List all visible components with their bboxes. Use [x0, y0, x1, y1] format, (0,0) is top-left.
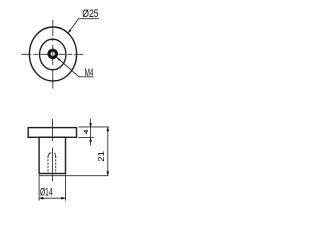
svg-text:4: 4 [84, 129, 90, 134]
middle circle (body dia) [40, 39, 66, 70]
horizontal centerline [21, 53, 83, 55]
arrowhead O14 left [39, 197, 43, 200]
dim 21: bottom reference line [39, 175, 108, 177]
arrowhead dim21 bottom [106, 172, 109, 176]
flange (head) rectangle [28, 128, 76, 138]
tapped hole ring M4 [49, 50, 56, 57]
side view centerline [51, 119, 53, 181]
arrowhead M4 leader [57, 57, 61, 61]
arrowhead O25 leader [68, 29, 71, 33]
vertical centerline [52, 20, 54, 89]
svg-text:M4: M4 [85, 66, 94, 78]
arrowhead dim21 top [106, 127, 109, 131]
dim O14: extension lines [39, 174, 65, 200]
dim 21: dimension line [107, 127, 109, 176]
leader M4 [57, 57, 94, 77]
hole bottom dome [48, 153, 56, 157]
body rectangle [39, 137, 65, 173]
arrowhead O14 right [61, 197, 65, 200]
svg-text:Ø25: Ø25 [82, 8, 99, 20]
leader O25 [68, 19, 99, 34]
svg-text:21: 21 [96, 151, 105, 162]
arrowhead dim4 bottom [89, 138, 92, 142]
arrowhead dim4 top [89, 123, 92, 127]
dim O14: dimension line [39, 197, 65, 199]
dim 4: extension lines [78, 127, 109, 138]
outer circle O25 [29, 27, 76, 81]
dim 4: dimension line with outside arrows [90, 119, 92, 146]
svg-text:Ø14: Ø14 [40, 186, 53, 198]
hidden hole dashed lines [48, 156, 56, 173]
